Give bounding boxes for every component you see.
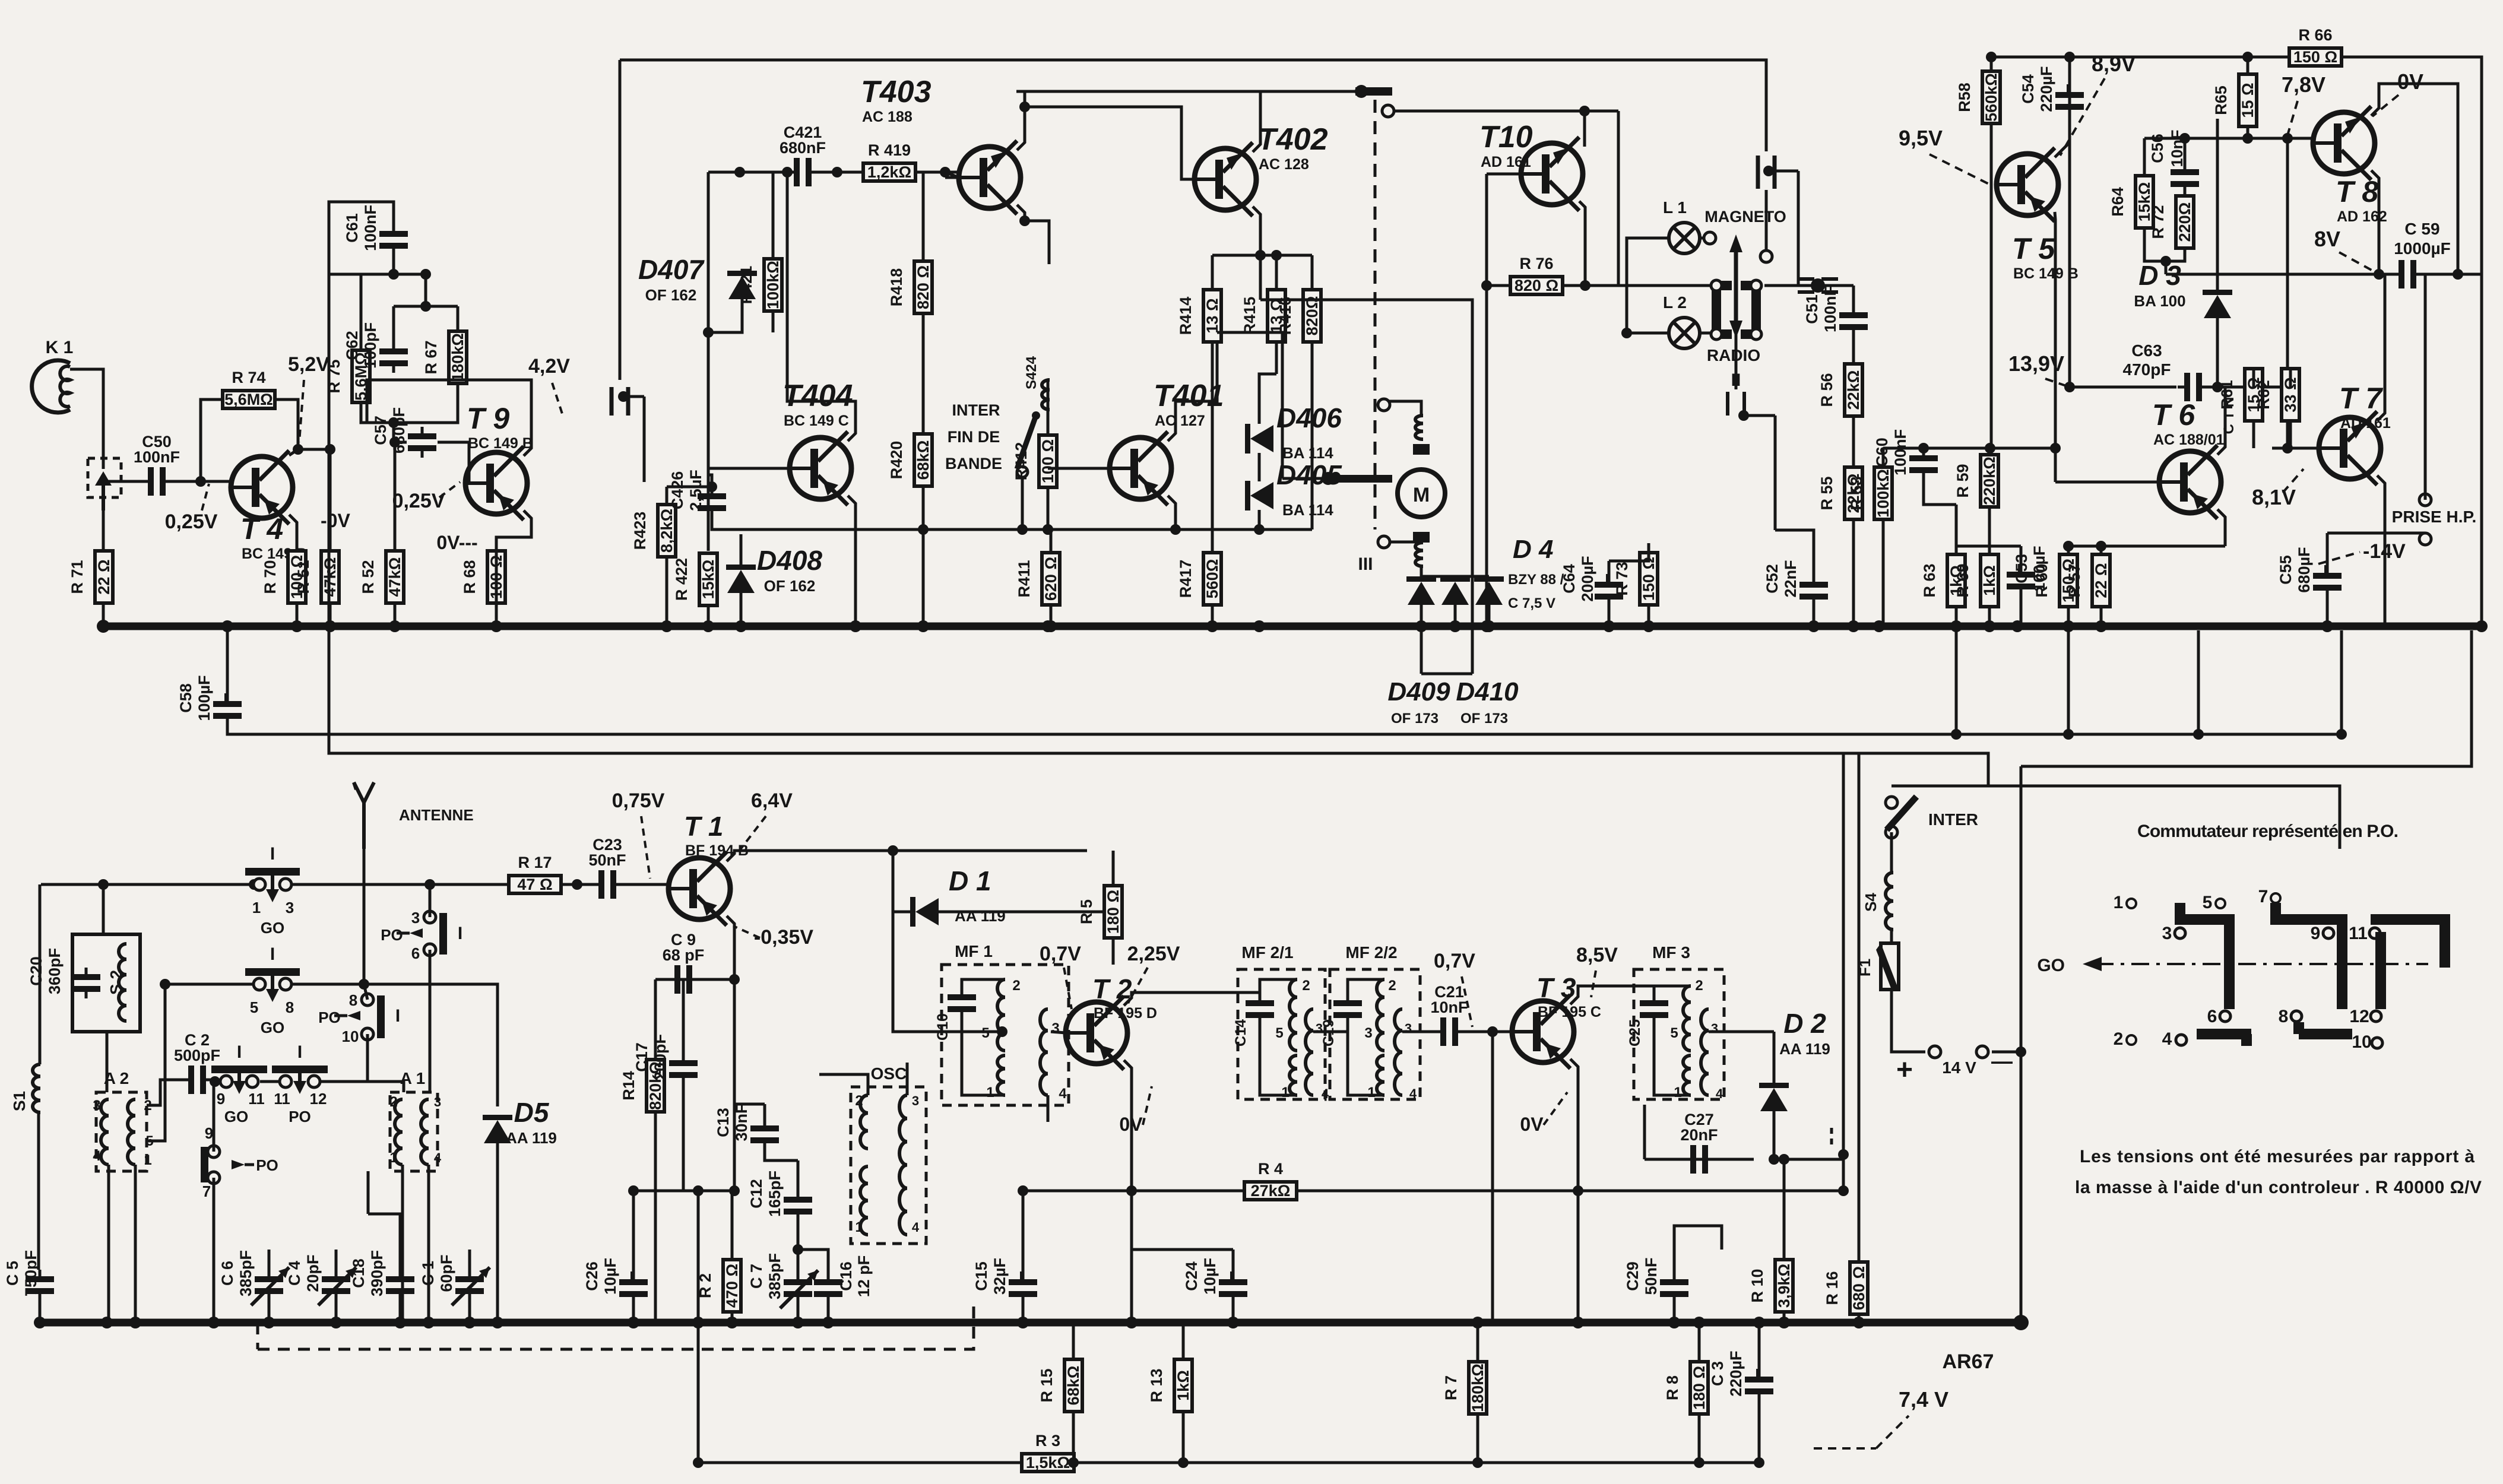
wire bottom row2 (1074, 1461, 1759, 1464)
resistor R68 (461, 551, 505, 603)
svg-text:R 72: R 72 (2149, 205, 2167, 239)
wire c53 down (2020, 596, 2023, 626)
wire d405 down (1258, 510, 1261, 529)
dashed head box (88, 458, 121, 497)
wire c52 up (1775, 530, 1814, 575)
wire mf3 bot (1654, 1025, 1691, 1095)
capacitor C23 (588, 836, 626, 899)
wire r70 down (296, 603, 299, 626)
svg-text:7,4 V: 7,4 V (1899, 1387, 1948, 1412)
label c19 (1320, 1019, 1337, 1047)
wire 1243 long (227, 725, 2342, 734)
wire c421 r419 (818, 171, 863, 174)
svg-text:AA 119: AA 119 (955, 907, 1006, 925)
svg-text:180 Ω: 180 Ω (1690, 1366, 1708, 1410)
transistor T403 (861, 75, 1021, 214)
wire s4 f1 (1890, 930, 1893, 943)
svg-text:T 4: T 4 (240, 512, 283, 546)
svg-text:C10: C10 (934, 1013, 951, 1041)
wire c6 up (268, 1250, 271, 1270)
node motor switch top (1378, 399, 1390, 411)
svg-text:I: I (270, 844, 275, 864)
wire rail 1324 (1891, 786, 2340, 849)
svg-text:C17: C17 (633, 1042, 651, 1072)
wire 1237 drop a (1955, 630, 1958, 734)
svg-text:C55: C55 (2277, 555, 2295, 585)
wire r412 up (1047, 410, 1050, 435)
node c426 (706, 481, 717, 492)
svg-text:C12: C12 (747, 1179, 765, 1209)
wire r71 down (102, 603, 105, 626)
wire r421 up (772, 172, 775, 259)
coil MF2/1 primary (1289, 979, 1297, 1051)
wire c24 row (1132, 1248, 1233, 1251)
svg-text:2: 2 (1012, 978, 1020, 994)
svg-text:MAGNETO: MAGNETO (1704, 208, 1786, 226)
resistor R 72 (2149, 196, 2194, 248)
capacitor C21 (1430, 983, 1468, 1046)
wire r416 up (1311, 255, 1314, 290)
wire t402 base2 (1025, 107, 1195, 179)
resistor R421 (737, 259, 782, 311)
head arrow (1729, 234, 1742, 338)
svg-text:R412: R412 (1012, 442, 1030, 481)
wire w96b (2342, 57, 2482, 626)
transformer MF2/1 box (1238, 969, 1325, 1099)
wire t4 base r51 (298, 448, 330, 451)
label 5,2V (288, 353, 329, 442)
capacitor C14 (1246, 994, 1274, 1025)
wire c63 row (2070, 386, 2176, 389)
wire r65 top (2247, 57, 2249, 74)
wire c56 top (2184, 138, 2187, 164)
resistor R17 (509, 854, 561, 893)
svg-text:C60: C60 (1873, 437, 1891, 467)
svg-text:13 Ω: 13 Ω (1203, 298, 1221, 333)
wire c61 down (392, 255, 395, 274)
wire r57 down (2100, 607, 2103, 626)
wire t8 collector (2371, 84, 2458, 274)
wire mf3 out (1709, 1030, 1774, 1033)
wire c9 row (655, 978, 734, 981)
wire t5 emitter (2055, 212, 2055, 450)
capacitor C51 (1803, 286, 1868, 337)
wire c16 link (798, 1250, 828, 1273)
node c7 top (793, 1244, 803, 1255)
wire w3 right drop (1617, 111, 1620, 286)
node c62 top (420, 301, 431, 312)
coil MF2/2 secondary (1395, 1009, 1402, 1095)
svg-text:T 7: T 7 (2339, 382, 2383, 415)
svg-text:C16: C16 (837, 1261, 855, 1291)
switch go1 (245, 844, 300, 937)
svg-text:R 63: R 63 (1921, 563, 1938, 597)
wire c64 down (1608, 606, 1611, 626)
svg-text:11: 11 (274, 1090, 290, 1108)
wire r415 up (1275, 255, 1278, 290)
wire mf1 out (1051, 1032, 1066, 1033)
label c25 (1627, 1019, 1643, 1047)
wire r55 bus (1852, 519, 1855, 626)
wire r420 up (922, 410, 925, 434)
wire t2 emitter (1124, 1060, 1132, 1323)
resistor R 60 (2033, 554, 2077, 607)
comm pin 1 (2114, 893, 2136, 912)
wire 1237 drop b (2067, 630, 2070, 734)
svg-text:C 7,5 V: C 7,5 V (1508, 595, 1555, 611)
wire c421 row (708, 171, 787, 174)
label 8,1V (2252, 469, 2304, 509)
osc pins (855, 1093, 920, 1235)
wire l1 stub (1700, 237, 1704, 240)
svg-text:2: 2 (2114, 1029, 2124, 1049)
wire r423 up (666, 487, 668, 505)
node r419 r (940, 167, 950, 177)
wire r417 down (1211, 605, 1214, 626)
svg-text:BA 100: BA 100 (2134, 292, 2185, 310)
svg-text:C25: C25 (1627, 1019, 1643, 1047)
node c54 top (2064, 52, 2075, 62)
wire t404 base feed (708, 475, 712, 487)
svg-text:0,7V: 0,7V (1434, 950, 1475, 972)
transistor T404 (782, 379, 853, 505)
svg-text:9,5V: 9,5V (1899, 126, 1943, 150)
wire po1 down (429, 950, 432, 1092)
svg-text:INTER: INTER (1928, 810, 1978, 829)
svg-text:R 13: R 13 (1148, 1368, 1165, 1402)
wire d407 down (708, 299, 742, 332)
coil MF3 primary (1683, 986, 1691, 1051)
wire ii right (1774, 416, 1777, 530)
svg-text:D 2: D 2 (1783, 1008, 1826, 1039)
wire po2 up (364, 984, 367, 1000)
svg-text:-0V: -0V (321, 510, 350, 531)
svg-text:4: 4 (93, 1148, 101, 1164)
capacitor C4 (286, 1254, 356, 1305)
transistor T8 (2313, 106, 2387, 225)
svg-text:L 1: L 1 (1663, 198, 1687, 217)
transistor T401 (1110, 379, 1224, 505)
wire r61 u (2252, 369, 2255, 387)
diode D2 (1759, 1008, 1830, 1111)
wire r13 col (1182, 1323, 1185, 1359)
capacitor C13 (714, 1104, 779, 1150)
capacitor C2 (174, 1031, 220, 1094)
svg-text:C426: C426 (668, 471, 686, 510)
wire w3 (1395, 110, 1618, 113)
wire c4 down (335, 1301, 338, 1323)
svg-text:2: 2 (855, 1093, 863, 1109)
svg-text:500pF: 500pF (174, 1047, 220, 1064)
svg-text:ANTENNE: ANTENNE (399, 806, 474, 824)
wire c12 col (797, 1160, 800, 1190)
diode D4 zener (1474, 576, 1504, 605)
label D410 (1456, 677, 1519, 727)
node blk top (2179, 133, 2190, 144)
resistor R 75 (325, 350, 370, 402)
label prise (2392, 508, 2477, 526)
coil MF1 primary lower (997, 1055, 1005, 1095)
transistor T10 (1479, 120, 1583, 211)
transformer A2 box (96, 1092, 147, 1171)
svg-text:68kΩ: 68kΩ (1064, 1366, 1082, 1406)
node d405 892 (1254, 524, 1265, 535)
wire r416 down (1311, 342, 1314, 529)
svg-text:560Ω: 560Ω (1203, 559, 1221, 599)
wire t7 emitter (2377, 475, 2385, 626)
label AR67 (1943, 1350, 1994, 1373)
svg-text:68kΩ: 68kΩ (914, 440, 932, 480)
svg-text:R 8: R 8 (1664, 1375, 1681, 1400)
svg-text:7: 7 (2258, 887, 2268, 906)
svg-text:2: 2 (1695, 978, 1703, 994)
wire r64 top (2143, 138, 2146, 176)
wire t10 collector (1583, 111, 1586, 147)
capacitor C27 (1680, 1111, 1718, 1174)
wire c64 r73 feed (1609, 543, 1649, 561)
label c14 (1233, 1019, 1249, 1047)
svg-text:R 4: R 4 (1258, 1160, 1283, 1178)
wire r56 r55 (1852, 416, 1855, 467)
resistor R 70 (261, 551, 306, 603)
wire t6 em row (2068, 545, 2225, 548)
resistor R58 (1956, 71, 2000, 123)
node r51 top (325, 444, 335, 455)
svg-text:100kΩ: 100kΩ (764, 261, 782, 309)
wire c18 vert (367, 1171, 370, 1214)
node r4 l (1126, 1185, 1137, 1196)
motor M (1398, 444, 1445, 543)
wire d1 right (939, 911, 1113, 914)
svg-text:T 6: T 6 (2152, 398, 2195, 432)
svg-text:RADIO: RADIO (1707, 346, 1760, 364)
wire c23 t1 (623, 883, 668, 886)
wire sw arm left2 (1217, 332, 1282, 478)
svg-text:5: 5 (250, 998, 258, 1016)
wire r60 up (2067, 546, 2070, 554)
label commutateur (2137, 822, 2399, 841)
resistor R66 (2289, 26, 2342, 66)
wire d407 rail (707, 172, 710, 274)
svg-text:AC 128: AC 128 (1259, 156, 1309, 173)
svg-text:8V: 8V (2314, 227, 2340, 251)
wire c15 up (1022, 1191, 1025, 1273)
wire t9 emitter (496, 510, 531, 551)
wire t10 base (1487, 173, 1521, 176)
capacitor C60 (1873, 429, 1938, 480)
svg-text:BANDE: BANDE (945, 455, 1002, 473)
wire r65 down (2247, 126, 2249, 138)
wire r73 up (1647, 543, 1650, 553)
svg-text:10µF: 10µF (1201, 1258, 1219, 1295)
node t402 em (1255, 250, 1266, 261)
comm pin 7 (2258, 887, 2280, 906)
resistor R417 (1177, 553, 1221, 605)
label RADIO (1707, 346, 1760, 364)
label s2 (107, 970, 125, 995)
svg-text:5,2V: 5,2V (288, 353, 329, 376)
coil S1 main (33, 1064, 40, 1112)
svg-text:R 73: R 73 (1613, 562, 1631, 595)
capacitor C10 (948, 988, 976, 1019)
svg-text:385pF: 385pF (766, 1253, 784, 1299)
wire t7 base (2272, 447, 2319, 450)
label battery (1896, 1049, 2013, 1086)
dashed to 74 (1814, 1447, 1876, 1450)
svg-text:220µF: 220µF (1727, 1350, 1745, 1396)
svg-text:7: 7 (202, 1182, 211, 1200)
label 8,9V (2060, 52, 2136, 156)
label 7,4V (1876, 1387, 1948, 1448)
wire 2006 link (683, 1190, 698, 1193)
label 2,25V (1127, 943, 1180, 1003)
wire d406 link (1258, 453, 1261, 481)
wire c1 up (468, 1250, 471, 1270)
wire sw arm left (1282, 477, 1328, 480)
wire l2 wires (1627, 332, 1669, 335)
capacitor C61 (343, 205, 408, 255)
node r76 l (1481, 280, 1492, 291)
wire 78 col (2286, 138, 2289, 387)
coil MF3 secondary (1701, 1009, 1709, 1095)
svg-text:820 Ω: 820 Ω (914, 265, 932, 309)
svg-text:10nF: 10nF (2168, 129, 2186, 167)
wire mf1 link (983, 1030, 1005, 1033)
wire bottom row (698, 1461, 1022, 1464)
svg-text:D408: D408 (757, 545, 822, 576)
label 7,8V (2282, 72, 2325, 135)
svg-text:Commutateur représenté en P: Commutateur représenté en P.O. (2137, 822, 2399, 841)
resistor R418 (888, 261, 932, 313)
wire c26 up (632, 1250, 635, 1273)
node d3 col (2212, 382, 2223, 392)
wire t1 emitter col (733, 979, 736, 1191)
node r4 r (1573, 1185, 1849, 1196)
wire r2 col (731, 1191, 734, 1260)
wire antenna down (363, 849, 366, 984)
wire k2 column (619, 60, 622, 380)
label A1 (400, 1069, 426, 1087)
svg-text:I: I (270, 944, 275, 964)
wire t402 emitter (1253, 207, 1260, 300)
svg-text:22nF: 22nF (1782, 560, 1799, 597)
svg-text:560kΩ: 560kΩ (1982, 73, 2000, 122)
comm pin 10 (2352, 1032, 2382, 1052)
resistor R 53 (1848, 467, 1892, 519)
switch arm II bar (1322, 472, 1392, 485)
resistor R411 (1015, 553, 1060, 605)
wire c12 c7 (797, 1221, 800, 1273)
capacitor C63 (2178, 373, 2209, 401)
node magneto junction (1763, 166, 1798, 286)
node s2 top (98, 879, 109, 890)
wire d3 down (2216, 318, 2219, 387)
wire 1237 drop c (2197, 630, 2200, 734)
svg-text:R420: R420 (888, 441, 905, 480)
wire r422 path (707, 475, 710, 551)
node c421a (734, 167, 745, 177)
coil OSC right (899, 1095, 907, 1235)
svg-text:R 51: R 51 (294, 560, 312, 594)
svg-text:AD 161: AD 161 (2340, 415, 2391, 432)
head K1 (32, 338, 74, 413)
switch fin lever (1017, 411, 1040, 477)
wire c2 left (164, 1079, 182, 1082)
svg-text:27kΩ: 27kΩ (1251, 1182, 1291, 1200)
resistor R15 (1038, 1359, 1082, 1412)
node ii bottom (1738, 410, 1775, 421)
capacitor C7 (747, 1253, 818, 1308)
label S4 (1862, 893, 1880, 912)
node 139 (2064, 382, 2075, 392)
wire r63 920 (1955, 505, 1958, 546)
node k2 (618, 391, 644, 482)
node t1em (729, 1185, 740, 1196)
capacitor C62 (343, 322, 408, 373)
svg-text:3: 3 (2162, 924, 2172, 943)
capacitor C19 (1333, 994, 1362, 1025)
svg-text:22 Ω: 22 Ω (95, 559, 113, 594)
wire r414 vert (1211, 255, 1214, 290)
svg-text:0V: 0V (1520, 1114, 1544, 1135)
svg-text:13,9V: 13,9V (2008, 351, 2064, 376)
svg-text:AR67: AR67 (1943, 1350, 1994, 1373)
svg-text:R416: R416 (1276, 297, 1294, 335)
resistor R65 (2212, 74, 2257, 126)
wire r73 down (1647, 605, 1650, 626)
svg-text:47 Ω: 47 Ω (517, 876, 552, 893)
svg-text:1: 1 (855, 1219, 863, 1235)
comm bar mid low (2299, 1022, 2352, 1034)
svg-text:AA 119: AA 119 (506, 1129, 557, 1147)
wire t10 e down (1485, 286, 1488, 626)
node c61b (420, 269, 431, 280)
svg-text:OSC: OSC (871, 1064, 907, 1083)
wire d3 up (2216, 119, 2219, 290)
comm pin 12 (2349, 1007, 2381, 1026)
svg-text:2: 2 (389, 1094, 397, 1110)
node r58 top (1986, 52, 2253, 62)
svg-text:T404: T404 (782, 379, 853, 413)
wire l2 right (1700, 332, 1714, 335)
coil MF1 primary (997, 979, 1005, 1051)
label 0,7V a (1040, 943, 1081, 1009)
svg-text:10: 10 (342, 1028, 359, 1045)
svg-text:4: 4 (2162, 1029, 2172, 1049)
wire t403 collector (1017, 91, 1025, 150)
cap c51 dashes (1798, 278, 1838, 293)
wire r411 up (1050, 529, 1053, 553)
capacitor C58 (177, 675, 242, 725)
svg-text:5: 5 (1670, 1025, 1678, 1041)
wire c55 row (2327, 532, 2425, 535)
svg-text:C51: C51 (1803, 294, 1821, 324)
capacitor C53 (2007, 546, 2048, 596)
resistor R 52 (359, 551, 404, 603)
wire r17 c23 (561, 883, 592, 886)
switch II dashes (1728, 392, 1744, 416)
label 0V t2 (1119, 1086, 1152, 1135)
wire r53 down (1882, 519, 1885, 626)
wire dashed fin de bande (1374, 100, 1377, 529)
wire d1 wires (893, 911, 910, 914)
svg-text:1kΩ: 1kΩ (1981, 565, 1998, 596)
svg-text:MF 2/2: MF 2/2 (1345, 943, 1397, 962)
wire r69 down (1988, 607, 1991, 626)
wire d2 down (1773, 1111, 1776, 1159)
node 1176 (693, 1185, 704, 1196)
svg-text:100nF: 100nF (362, 205, 379, 251)
